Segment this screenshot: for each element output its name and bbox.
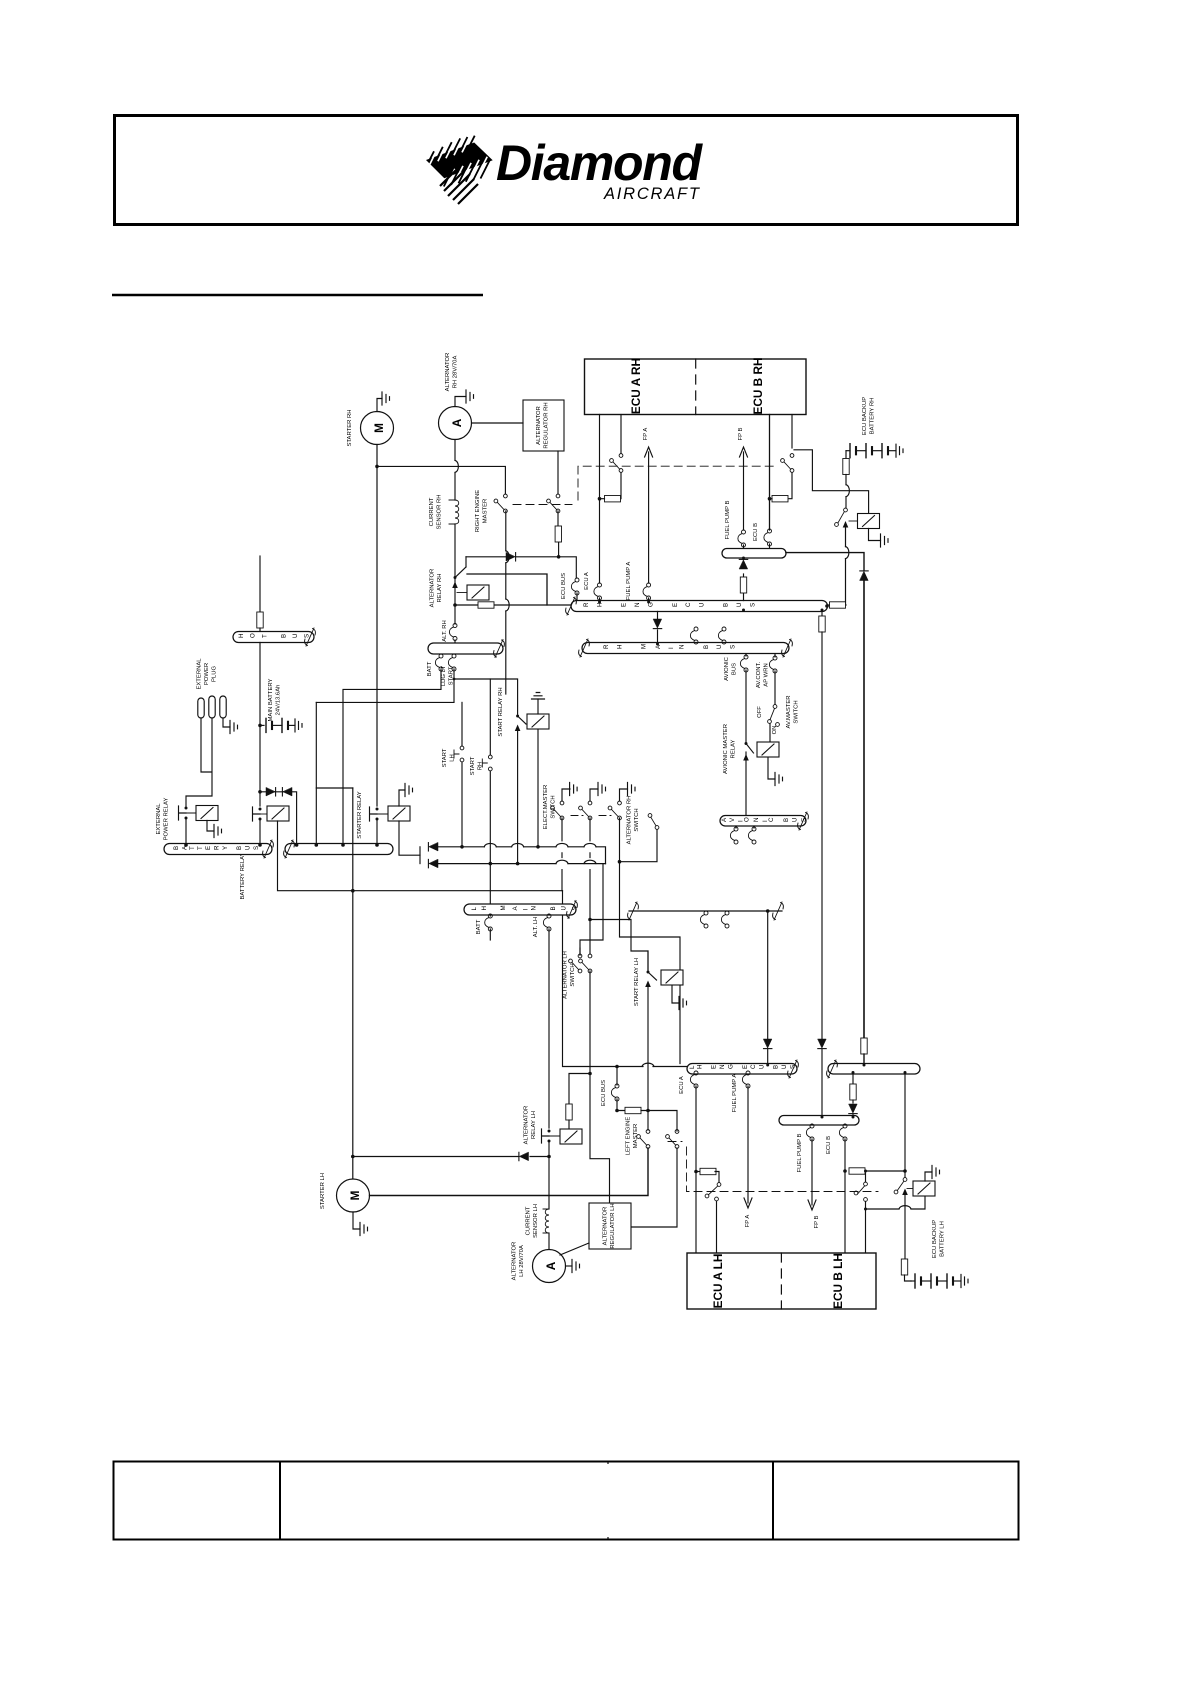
avionic relay ground — [768, 757, 775, 779]
relay ECU backup battery LH coil — [913, 1181, 935, 1196]
AVIONIC BUS breaker — [745, 654, 747, 656]
switch ECU B LH feed — [854, 1182, 867, 1201]
node ECU A LH fuse tap — [694, 1170, 698, 1174]
BATT breaker chain — [343, 669, 441, 844]
wire fuse to left engine master — [641, 1111, 677, 1132]
svg-text:SWITCH: SWITCH — [570, 963, 576, 986]
RH ENG ECU BUS pill — [571, 601, 828, 612]
HOT BUS pill — [233, 632, 314, 643]
svg-text:ALTERNATOR: ALTERNATOR — [524, 1106, 530, 1145]
alternator regulator RH box — [523, 400, 564, 451]
left engine master switch pole 1 — [637, 1130, 650, 1149]
svg-text:BATT: BATT — [427, 661, 433, 676]
diode+fuse pill to ECU bus — [743, 558, 745, 601]
alternator LH switch pole 1 — [569, 954, 582, 973]
svg-text:FUEL PUMP A: FUEL PUMP A — [732, 1074, 738, 1113]
starter relay ground — [399, 790, 405, 806]
ALTERNATOR LH circle — [533, 1250, 566, 1283]
svg-text:LEFT ENGINE: LEFT ENGINE — [626, 1117, 632, 1156]
wire fuse to backup relay LH — [865, 1170, 905, 1172]
wire regulator bottom to switch — [557, 451, 559, 494]
svg-text:AVIONIC BUS: AVIONIC BUS — [721, 813, 807, 822]
wire switch to ECU A LH pin — [716, 1201, 718, 1253]
svg-text:MASTER: MASTER — [633, 1124, 639, 1149]
svg-text:FUEL PUMP B: FUEL PUMP B — [797, 1133, 803, 1172]
svg-text:REGULATOR LH: REGULATOR LH — [610, 1203, 616, 1248]
svg-text:ECU A: ECU A — [584, 572, 590, 590]
svg-text:M: M — [348, 1190, 362, 1200]
feed wire from ECU B pin 2 to backup relay coil — [794, 450, 869, 514]
wire switch down to fuse — [620, 473, 623, 499]
svg-text:START: START — [442, 748, 448, 767]
node on ECU A pin line — [600, 498, 605, 500]
alternator relay RH coil box — [467, 585, 489, 600]
svg-text:Diamond: Diamond — [496, 135, 703, 191]
wire down to ALT RH breaker — [454, 605, 456, 643]
ground at elect master switch 2 — [590, 789, 598, 801]
wire coil to A — [548, 1233, 550, 1250]
thick wire M LH to engine master — [370, 1148, 649, 1196]
FP/ECU B bus pill RH — [722, 549, 786, 559]
svg-text:BATT: BATT — [476, 919, 482, 934]
wire A vertical with hop — [454, 440, 456, 577]
ECU box divider dashed — [695, 359, 697, 415]
svg-text:ECU B RH: ECU B RH — [751, 357, 765, 414]
ECU backup relay RH — [858, 514, 880, 529]
wire M/A junction horizontal — [377, 466, 505, 494]
battery RH backup — [846, 444, 903, 458]
FP A arrow — [645, 447, 653, 583]
fuse ECU A LH — [700, 1168, 716, 1174]
wire to ECU bus right end with fuse — [827, 604, 846, 606]
switch1 lower run with hops — [505, 511, 507, 694]
wire alternator LH switch to regulator LH — [590, 971, 610, 1203]
x853 chain from pill2: fuse + diode down to lower pill — [852, 1074, 854, 1084]
svg-text:AV.MASTER: AV.MASTER — [786, 695, 792, 728]
svg-text:ECU A: ECU A — [679, 1076, 685, 1094]
wire relay row to ECU bus — [455, 604, 571, 606]
bus break left — [566, 597, 577, 615]
svg-text:BATTERY RH: BATTERY RH — [870, 398, 876, 435]
svg-text:ALTERNATOR: ALTERNATOR — [445, 353, 451, 392]
wire y557 with diode to ECU feed — [466, 557, 576, 578]
relay ground RH backup — [869, 529, 881, 541]
svg-text:ECU BUS: ECU BUS — [601, 1080, 607, 1106]
svg-text:ALTERNATOR: ALTERNATOR — [430, 569, 436, 608]
svg-text:24V/13.6Ah: 24V/13.6Ah — [276, 685, 282, 716]
wire into backup relay LH coil box — [911, 1197, 925, 1210]
alternator A RH — [439, 407, 472, 440]
diode row at battery relay — [260, 792, 297, 844]
svg-text:STARTER RH: STARTER RH — [347, 409, 353, 446]
left pill (hot side) — [428, 643, 503, 654]
bus junction nodes — [598, 601, 601, 604]
svg-text:AP WRN: AP WRN — [764, 663, 770, 686]
svg-text:A: A — [544, 1261, 558, 1270]
node ECU BUS LH tap — [615, 1065, 619, 1069]
ECU B pin 2 wire to switch — [791, 415, 793, 449]
wire down to LH ENG ECU BUS feed — [563, 891, 688, 1067]
wire avionic breaker down to relay — [745, 670, 747, 742]
svg-text:BUS: BUS — [732, 663, 738, 675]
wire av.cont breaker down to switch — [774, 671, 776, 704]
long vertical from ECU bus right with fuse — [821, 612, 823, 617]
wire ECU bus 2 to backup battery switch LH — [904, 1074, 906, 1177]
ECU B feed switch — [781, 454, 794, 473]
wire switch down to bus with hop — [845, 528, 847, 606]
ground at starter RH — [377, 392, 390, 412]
FUEL PUMP A breaker — [643, 583, 651, 600]
wire alternator RH switch output — [620, 830, 658, 862]
svg-text:STARTER LH: STARTER LH — [320, 1173, 326, 1209]
fuse ECU B RH feed — [772, 496, 788, 502]
svg-text:OFF: OFF — [757, 706, 763, 718]
svg-text:EXTERNAL: EXTERNAL — [156, 803, 162, 835]
BATTERY BUS pill — [164, 844, 272, 855]
svg-text:AVIONIC: AVIONIC — [724, 656, 730, 681]
gang dashed link — [513, 466, 776, 504]
wire left engine master to regulator LH — [631, 1148, 677, 1227]
long thick vertical to LH section — [863, 581, 865, 1038]
current sensor RH coil — [449, 500, 459, 524]
svg-text:CURRENT: CURRENT — [429, 497, 435, 526]
battery ECU BACKUP BATTERY LH with ground — [911, 1274, 968, 1288]
elect master switch pole 1 — [551, 801, 564, 820]
switch2 to fuse — [557, 511, 560, 557]
ALT. RH breaker — [449, 624, 457, 641]
LDG LT START breaker — [448, 654, 456, 671]
rail 2 — [438, 863, 606, 865]
FP B arrow — [740, 447, 748, 530]
wire hop over start relay LH line — [642, 1063, 654, 1066]
svg-text:A: A — [450, 418, 464, 427]
svg-text:FP A: FP A — [643, 428, 649, 441]
svg-text:AV.CONT.: AV.CONT. — [756, 662, 762, 689]
node fuse to ECU bus wire — [557, 555, 561, 559]
svg-text:ELECT.MASTER: ELECT.MASTER — [543, 785, 549, 830]
battery relay coil output long run — [278, 821, 563, 891]
svg-text:POWER: POWER — [204, 663, 210, 685]
plug ground — [223, 718, 230, 727]
svg-text:MAIN BATTERY: MAIN BATTERY — [268, 678, 274, 721]
RH MAIN BUS pill — [582, 643, 789, 654]
small breakers on top of main bus — [690, 627, 698, 644]
svg-text:FP A: FP A — [745, 1215, 751, 1228]
svg-text:ALTERNATOR: ALTERNATOR — [512, 1242, 518, 1281]
fuse under battery — [843, 459, 849, 475]
second pill — [828, 1064, 920, 1075]
starter relay coil output to rails — [399, 821, 420, 855]
BATT breaker LH — [489, 915, 491, 916]
ECU B breaker — [764, 529, 772, 546]
wire switch to backup battery LH fuse — [904, 1195, 906, 1259]
svg-text:SENSOR LH: SENSOR LH — [533, 1204, 539, 1238]
svg-text:EXTERNAL: EXTERNAL — [197, 658, 203, 690]
svg-text:ALT. RH: ALT. RH — [442, 620, 448, 642]
AV CONT AP WRN breaker — [774, 654, 776, 657]
svg-text:LH MAIN BUS: LH MAIN BUS — [471, 899, 579, 911]
starter LH ground — [353, 1212, 360, 1229]
start relay RH ground — [537, 699, 539, 714]
svg-text:AVIONIC MASTER: AVIONIC MASTER — [723, 724, 729, 774]
svg-text:ALTERNATOR LH: ALTERNATOR LH — [563, 951, 569, 999]
wire fuse to relay box — [568, 1120, 570, 1130]
svg-text:RIGHT ENGINE: RIGHT ENGINE — [475, 490, 481, 533]
backup switch RH — [835, 508, 849, 527]
start relay LH feed jog — [590, 920, 648, 971]
wire M main vertical — [376, 445, 378, 807]
svg-text:CURRENT: CURRENT — [526, 1206, 532, 1235]
wire to ECU BUS breaker LH — [616, 1067, 618, 1086]
rail hops — [484, 843, 496, 846]
wire y1156.5 with diode to M line — [353, 1156, 549, 1158]
ext power relay ground — [207, 821, 214, 832]
svg-text:ECU A LH: ECU A LH — [711, 1254, 725, 1309]
node ECU B pin fuse tap — [768, 497, 772, 501]
svg-text:START RELAY LH: START RELAY LH — [634, 958, 640, 1006]
wire elect master pole3 down to LH ENG ECU BUS left end — [620, 818, 681, 1064]
thick wire pill2 to right vertical — [786, 553, 864, 571]
alternator LH switch pole 2 — [579, 954, 592, 973]
dashed gang link left engine master to ECU pin switches — [668, 1142, 878, 1192]
fuse backup battery LH — [901, 1259, 907, 1275]
ECU A breaker — [594, 583, 602, 600]
node alternator LH field tap — [588, 1072, 592, 1076]
header frame box — [115, 116, 1018, 225]
svg-text:RELAY LH: RELAY LH — [531, 1111, 537, 1139]
wire elect master pole1 down through rails — [561, 818, 563, 891]
switch ECU backup battery LH — [894, 1178, 908, 1195]
wire stub to alternator LH switch — [579, 948, 581, 955]
svg-text:SENSOR RH: SENSOR RH — [437, 494, 443, 529]
svg-text:START: START — [470, 756, 476, 775]
ECU A pin 1 wire — [599, 415, 601, 584]
breaker ECU BUS LH — [611, 1084, 619, 1101]
svg-text:START RELAY RH: START RELAY RH — [498, 687, 504, 736]
svg-text:LH: LH — [450, 754, 456, 762]
ground at elect master switch 3 — [620, 789, 628, 801]
svg-text:FP B: FP B — [738, 427, 744, 440]
aux bus line y911 — [629, 910, 782, 912]
right engine master switch 2 — [547, 494, 560, 513]
BATT breaker — [435, 654, 443, 671]
alternator relay RH arm — [452, 557, 467, 605]
elect master switch pole 2 — [579, 801, 592, 820]
schematic layers appended below — [156, 353, 968, 1309]
AVIONIC BUS pill — [720, 816, 806, 827]
wire switch to ECU B LH pin — [865, 1173, 867, 1253]
wire A to regulator LH — [560, 1243, 589, 1255]
start push buttons — [461, 702, 463, 746]
svg-text:SWITCH: SWITCH — [634, 808, 640, 831]
LDG LT chain — [316, 669, 517, 714]
CURRENT SENSOR LH coil — [543, 1209, 549, 1233]
hot bus stub + fuse — [259, 556, 261, 612]
wire backup relay LH coil feed — [866, 1208, 900, 1210]
fuse alternator relay LH coil — [566, 1104, 572, 1120]
hot bus vertical down — [259, 643, 261, 807]
MAIN BATTERY — [258, 724, 262, 728]
alternator LH ground — [566, 1265, 573, 1267]
backup relay LH ground — [925, 1172, 932, 1181]
rail 1 — [438, 847, 606, 864]
long vertical from aux bus line to LH ECU bus — [766, 909, 770, 913]
dashed gang link elect master switches — [571, 815, 611, 817]
svg-text:PLUG: PLUG — [212, 666, 218, 682]
right engine master switch 1 — [494, 494, 507, 513]
fuse ECU bus LH — [625, 1107, 641, 1113]
ECU B pin 1 wire (thick) — [769, 415, 771, 531]
svg-text:MASTER: MASTER — [483, 499, 489, 524]
wire battery to switch with hop — [845, 475, 847, 509]
STARTER LH motor — [337, 1179, 370, 1212]
svg-text:LH 28V/70A: LH 28V/70A — [519, 1245, 525, 1277]
elect master switch pole 3 — [608, 801, 621, 820]
AV MASTER SWITCH — [768, 705, 780, 742]
ALT LH breaker — [543, 914, 551, 931]
battery bus segment 2 — [285, 844, 393, 855]
start relay LH ground — [672, 986, 679, 1004]
fuse on y605 — [478, 602, 494, 608]
node backup relay LH coil feed — [864, 1208, 867, 1211]
wire start relay LH arm top — [647, 951, 649, 970]
svg-text:AIRCRAFT: AIRCRAFT — [603, 185, 701, 203]
diode on y557 — [506, 553, 516, 561]
starter motor M RH — [361, 412, 394, 445]
title underline — [112, 294, 483, 297]
svg-text:ECU B LH: ECU B LH — [831, 1253, 845, 1309]
svg-text:FUEL PUMP B: FUEL PUMP B — [725, 500, 731, 539]
svg-text:RH: RH — [478, 762, 484, 771]
node M junction — [375, 465, 379, 469]
svg-text:REGULATOR RH: REGULATOR RH — [544, 402, 550, 448]
svg-text:STARTER RELAY: STARTER RELAY — [357, 791, 363, 839]
ECU RH box — [585, 359, 807, 415]
wire fuse to ECU A LH switch — [715, 1172, 719, 1183]
plug wires — [186, 718, 212, 806]
svg-text:ALTERNATOR RH: ALTERNATOR RH — [627, 796, 633, 845]
svg-text:ECU BACKUP: ECU BACKUP — [932, 1220, 938, 1258]
svg-text:FP B: FP B — [814, 1215, 820, 1228]
wire to ECU A LH fuse — [696, 1171, 700, 1173]
wire elect master pole2 down to ALT LH switch — [589, 818, 591, 954]
svg-text:M: M — [372, 423, 386, 433]
svg-text:ECU BUS: ECU BUS — [561, 573, 567, 599]
fuse right engine master feed — [555, 526, 561, 542]
breaker ECU B LH — [839, 1124, 847, 1141]
wire loop over relay — [467, 574, 547, 605]
svg-text:ALTERNATOR: ALTERNATOR — [536, 406, 542, 445]
svg-text:ECU A RH: ECU A RH — [629, 358, 643, 414]
diode ECU bus to RH MAIN bus — [657, 612, 659, 643]
fuse ECU A RH feed — [605, 496, 621, 502]
svg-text:ECU BACKUP: ECU BACKUP — [862, 397, 868, 435]
svg-text:ECU B: ECU B — [826, 1136, 832, 1154]
avionic bus load breakers — [735, 826, 737, 828]
rails feed diodes — [419, 847, 421, 864]
svg-text:RELAY: RELAY — [731, 739, 737, 758]
breaker FUEL PUMP B LH — [806, 1124, 814, 1141]
diode on thick vertical — [860, 571, 868, 581]
wire start relay LH to left engine master — [647, 985, 649, 1130]
svg-text:ON: ON — [772, 726, 778, 735]
node ECU B LH fuse tap — [843, 1169, 847, 1173]
ECU A feed switch — [610, 454, 623, 473]
svg-text:ALTERNATOR: ALTERNATOR — [603, 1207, 609, 1246]
ALTERNATOR REGULATOR LH box — [589, 1203, 631, 1249]
svg-text:RH 28V/70A: RH 28V/70A — [453, 356, 459, 389]
svg-text:RELAY RH: RELAY RH — [437, 574, 443, 603]
svg-text:BATTERY RELAY: BATTERY RELAY — [240, 852, 246, 899]
ground at elect master switch 1 — [562, 789, 570, 801]
Diamond logo icon — [426, 136, 493, 187]
wire A to regulator — [472, 422, 524, 424]
ground at alternator RH — [455, 390, 474, 407]
ECU A pin 2 wire to switch — [620, 415, 622, 454]
M feed vertical to LH starter — [315, 702, 317, 843]
svg-text:BATTERY LH: BATTERY LH — [940, 1221, 946, 1257]
fuse ECU backup battery LH — [849, 1168, 865, 1174]
wire rail2 end down to alternator LH switch — [580, 864, 603, 955]
node at 455/605 — [453, 603, 457, 607]
FUEL PUMP B breaker — [738, 530, 746, 547]
svg-text:POWER RELAY: POWER RELAY — [164, 798, 170, 841]
wire hop over backup battery line — [899, 1206, 911, 1209]
ECU BUS breaker — [571, 578, 579, 595]
svg-text:SWITCH: SWITCH — [794, 700, 800, 723]
svg-text:ECU B: ECU B — [753, 523, 759, 541]
svg-text:RH MAIN BUS: RH MAIN BUS — [603, 635, 737, 649]
rail junction dots — [460, 845, 464, 849]
svg-text:LDG LT: LDG LT — [441, 666, 447, 687]
svg-text:ALT. LH: ALT. LH — [533, 917, 539, 938]
left engine master switch pole 2 — [666, 1130, 679, 1149]
wire to alternator relay LH coil fuse — [569, 1074, 590, 1105]
switch ECU A LH feed — [705, 1183, 721, 1201]
EXTERNAL POWER PLUG prongs — [198, 696, 226, 718]
